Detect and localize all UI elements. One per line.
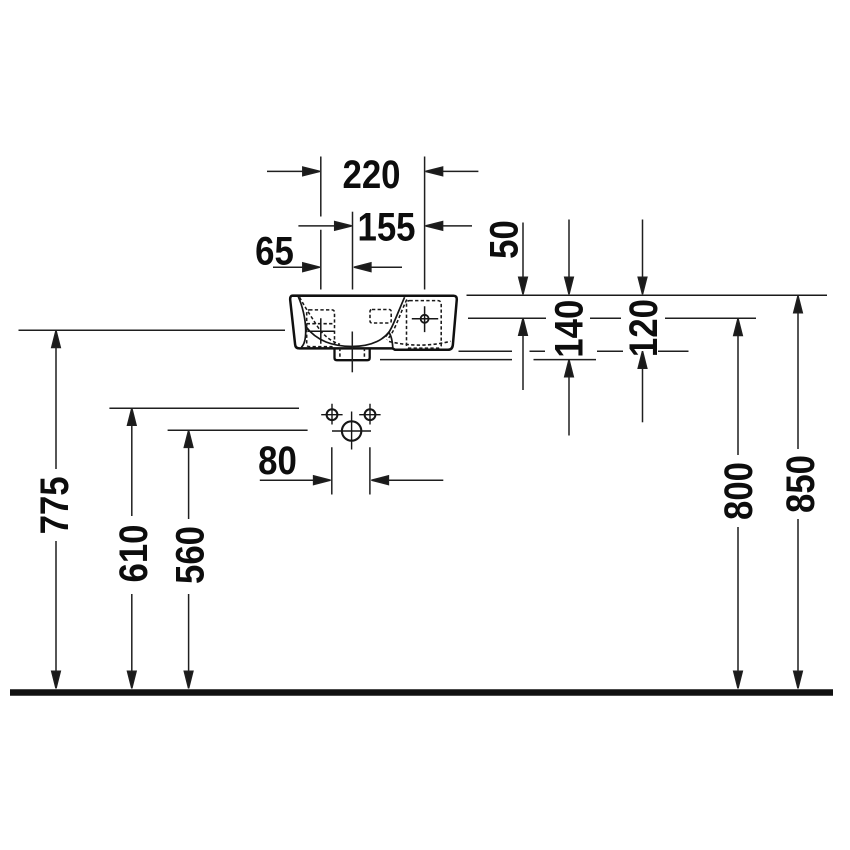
extension line 220 left bbox=[320, 157, 322, 290]
svg-text:610: 610 bbox=[111, 524, 156, 582]
svg-text:560: 560 bbox=[167, 526, 212, 584]
svg-text:800: 800 bbox=[716, 462, 761, 520]
basin outline bbox=[290, 296, 457, 350]
left hidden tap hole cross bbox=[308, 318, 335, 344]
svg-text:775: 775 bbox=[32, 476, 77, 534]
basin bowl front edge bbox=[306, 327, 393, 348]
dimension 775 arrows bbox=[52, 331, 61, 689]
610 level line bbox=[109, 407, 299, 409]
basin left inner rim line bbox=[298, 297, 305, 348]
mounting hole right bbox=[359, 404, 380, 425]
dimension 220 arrows bbox=[267, 167, 478, 176]
svg-text:65: 65 bbox=[255, 228, 294, 273]
dimension 50 arrows bbox=[519, 223, 528, 391]
svg-text:50: 50 bbox=[481, 220, 526, 259]
extension line tap center bbox=[424, 157, 426, 290]
extension lines 80 bbox=[332, 447, 370, 494]
svg-text:155: 155 bbox=[357, 204, 415, 249]
extension line drain center bbox=[352, 212, 354, 290]
middle hidden rect (dashed) bbox=[370, 310, 391, 324]
left hidden tap hole rect (dashed) bbox=[307, 310, 335, 347]
siphon circle bbox=[332, 412, 371, 450]
140 level line bbox=[380, 359, 596, 361]
svg-text:220: 220 bbox=[342, 152, 400, 197]
tap hole circle bbox=[421, 315, 429, 323]
hidden bowl edge left (dashed) bbox=[300, 297, 340, 344]
svg-text:850: 850 bbox=[778, 455, 823, 513]
dimension 610 arrows bbox=[128, 408, 137, 688]
drain box bbox=[335, 348, 370, 361]
svg-text:80: 80 bbox=[258, 438, 297, 483]
tap hole cross bbox=[412, 306, 438, 332]
dimension 155 arrows bbox=[298, 222, 472, 231]
775 level line bbox=[19, 329, 286, 331]
floor line bbox=[10, 689, 833, 696]
svg-text:140: 140 bbox=[546, 300, 591, 358]
dashed smile under platform bbox=[389, 341, 451, 345]
hidden bowl edge right (dashed) bbox=[387, 300, 407, 340]
dimension 120 arrows bbox=[638, 220, 647, 423]
rim extension line right bbox=[467, 294, 828, 296]
120 level line bbox=[459, 350, 689, 352]
basin right bowl edge bbox=[386, 297, 405, 336]
dimension 800 arrows bbox=[734, 319, 743, 689]
left hidden rect inner dashed line bbox=[307, 323, 335, 325]
dimension 140 arrows bbox=[565, 220, 574, 436]
dimension 65 arrows bbox=[273, 263, 402, 272]
drain box hidden sides (dashed) bbox=[340, 348, 365, 359]
560 level line bbox=[168, 429, 308, 431]
dimension 850 arrows bbox=[794, 296, 803, 689]
800 level line bbox=[468, 317, 756, 319]
dimension 560 arrows bbox=[184, 430, 193, 688]
drain centerline bbox=[351, 332, 353, 373]
dimension 80 arrows bbox=[260, 476, 444, 485]
right tap platform rect (dashed) bbox=[407, 301, 442, 349]
mounting hole left bbox=[321, 404, 342, 425]
svg-text:120: 120 bbox=[621, 299, 666, 357]
